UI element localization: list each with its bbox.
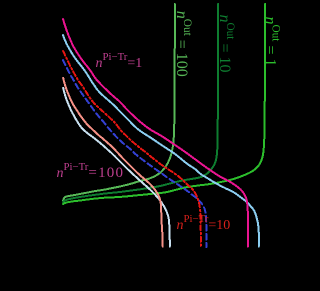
svg-text:nPi−Tr=10: nPi−Tr=10 [177,213,231,233]
curve n^Pi-Tr=1 (magenta solid) [63,19,248,247]
curve n^Out=100 (light green) [63,4,175,201]
curve n^Pi-Tr=100 partner (pale blue solid) [63,88,170,247]
curve n^Pi-Tr=1 partner (light blue solid) [63,35,259,247]
curve n^Pi-Tr=100 (salmon solid) [63,78,163,247]
svg-text:nOut = 1: nOut = 1 [262,17,282,67]
svg-text:nPi−Tr=100: nPi−Tr=100 [57,161,125,181]
svg-text:nPi−Tr=1: nPi−Tr=1 [96,51,143,71]
curve n^Out=1 (bright green) [63,4,265,204]
svg-text:nOut = 100: nOut = 100 [173,11,193,77]
curve n^Pi-Tr=10 (red dash-dot) [63,51,201,247]
curve n^Pi-Tr=10 partner (blue dashed) [63,60,206,247]
curve n^Out=10 (dark green) [63,4,218,202]
